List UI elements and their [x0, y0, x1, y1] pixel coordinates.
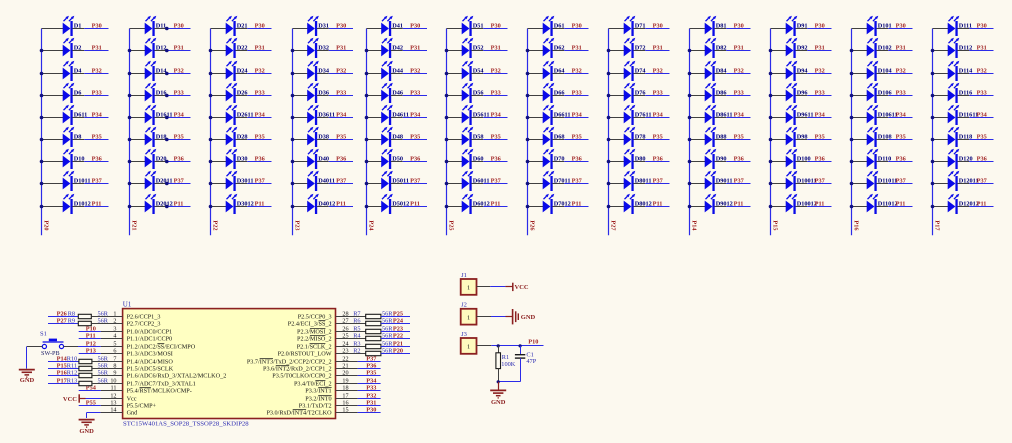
wire: net stub P33 [84, 95, 108, 97]
svg-text:P34: P34 [174, 112, 185, 119]
LED D7011 [543, 171, 555, 191]
wire: net stub P36 [888, 161, 912, 163]
svg-text:P17: P17 [57, 377, 67, 384]
svg-text:P34: P34 [92, 112, 103, 119]
wire: LED D11 cathode stub [154, 28, 166, 30]
svg-text:P20: P20 [42, 220, 49, 230]
junction on bus at row 8 [209, 182, 213, 186]
wire: net stub P11 [888, 206, 912, 208]
wire down to GND [26, 347, 28, 369]
svg-text:D24: D24 [237, 68, 249, 75]
LED D116 [948, 83, 960, 103]
LED D4011 [307, 171, 319, 191]
wire: net stub P37 [888, 183, 912, 185]
wire: LED D94 cathode stub [795, 73, 807, 75]
resistor R7 56R [366, 314, 381, 318]
wire: bus to LED D5011 anode [367, 183, 382, 185]
LED D40 [307, 149, 319, 169]
wire: LED D48 cathode stub [391, 139, 403, 141]
svg-text:P33: P33 [734, 90, 744, 97]
svg-text:D66: D66 [554, 90, 565, 97]
svg-text:P21: P21 [130, 220, 137, 230]
svg-text:D4012: D4012 [318, 201, 335, 208]
junction on bus at row 9 [526, 205, 530, 209]
svg-text:D8011: D8011 [635, 178, 652, 185]
svg-text:P37: P37 [92, 178, 102, 185]
svg-text:25: 25 [342, 333, 348, 340]
wire: bus to LED D101 anode [852, 28, 868, 30]
wire: LED D32 cathode stub [317, 50, 329, 52]
svg-text:P2.1/SCLK_2: P2.1/SCLK_2 [297, 344, 332, 351]
wire: net stub P30 [247, 28, 271, 30]
junction on bus at row 9 [850, 205, 854, 209]
svg-text:22: 22 [342, 356, 348, 363]
LED D10 [63, 149, 75, 169]
svg-text:P11: P11 [815, 201, 825, 208]
svg-text:D20: D20 [156, 156, 167, 163]
wire: bus to LED D32 anode [293, 50, 308, 52]
LED D51 [462, 16, 474, 36]
LED D8 [63, 127, 75, 147]
wire: bus to LED D56 anode [447, 95, 463, 97]
junction on bus at row 3 [931, 72, 935, 76]
svg-text:15: 15 [342, 407, 348, 414]
wire: net stub P36 [166, 161, 190, 163]
svg-text:P37: P37 [815, 178, 825, 185]
wire: LED D80 cathode stub [633, 161, 645, 163]
svg-text:23: 23 [342, 348, 348, 355]
LED D9611 [786, 105, 798, 125]
svg-text:P31: P31 [366, 399, 376, 406]
wire: LED D4011 cathode stub [317, 183, 329, 185]
svg-text:P31: P31 [815, 45, 825, 52]
svg-text:R3: R3 [353, 340, 360, 347]
svg-text:D11611: D11611 [959, 112, 979, 119]
svg-text:D611: D611 [74, 112, 88, 119]
wire pin 20 [336, 375, 358, 377]
LED D11012 [867, 194, 879, 214]
wire: bus to LED D5012 anode [367, 206, 382, 208]
LED column 8 bus wire net P27 [608, 29, 610, 236]
wire: LED D10012 cathode stub [795, 206, 807, 208]
wire: LED D114 cathode stub [957, 73, 969, 75]
wire: net stub P34 [564, 117, 588, 119]
wire: bus to LED D2012 anode [130, 206, 146, 208]
wire net P31 [358, 405, 381, 407]
connector J1 [461, 279, 477, 295]
LED D86 [705, 83, 717, 103]
svg-text:P32: P32 [653, 68, 663, 75]
svg-text:P35: P35 [896, 134, 906, 141]
wire: bus to LED D3611 anode [293, 117, 308, 119]
junction on bus at row 2 [607, 49, 611, 53]
wire: LED D28 cathode stub [235, 139, 247, 141]
svg-text:56R: 56R [382, 310, 393, 317]
svg-text:VCC: VCC [63, 396, 77, 403]
svg-text:P33: P33 [896, 90, 906, 97]
svg-text:P22: P22 [393, 332, 403, 339]
wire: bus to LED D611 anode [42, 117, 64, 119]
svg-text:P35: P35 [815, 134, 825, 141]
wire net P23 [381, 331, 410, 333]
wire: net stub P30 [807, 28, 831, 30]
LED D11611 [948, 105, 960, 125]
LED D74 [624, 61, 636, 81]
wire R10 to pin 7 [92, 361, 123, 363]
svg-text:P33: P33 [653, 90, 663, 97]
svg-text:R12: R12 [67, 369, 78, 376]
wire pin 15 [336, 412, 358, 414]
wire net P54 [79, 390, 101, 392]
svg-text:R1: R1 [502, 354, 509, 361]
LED column 3 bus wire net P22 [210, 29, 212, 236]
svg-text:D102: D102 [878, 45, 892, 52]
junction on bus at row 9 [931, 205, 935, 209]
LED D5012 [381, 194, 393, 214]
wire: LED D2 cathode stub [72, 50, 84, 52]
wire net P25 [381, 316, 410, 318]
wire: bus to LED D4611 anode [367, 117, 382, 119]
LED column 1 bus wire net P20 [41, 29, 43, 236]
wire R12 to pin 9 [92, 375, 123, 377]
wire: net stub P36 [726, 161, 750, 163]
LED D4611 [381, 105, 393, 125]
resistor R12 56R [79, 373, 92, 377]
svg-text:P2.5/CCP0_3: P2.5/CCP0_3 [298, 314, 332, 321]
svg-text:J3: J3 [461, 331, 467, 338]
svg-text:P11: P11 [336, 201, 346, 208]
wire pin 19 [336, 383, 358, 385]
wire: bus to LED D8011 anode [609, 183, 625, 185]
wire: net stub P37 [726, 183, 750, 185]
wire: net stub P36 [329, 161, 353, 163]
wire: bus to LED D66 anode [528, 95, 544, 97]
LED D2 [63, 38, 75, 58]
svg-text:P11: P11 [174, 201, 184, 208]
junction on bus at row 7 [445, 160, 449, 164]
svg-text:P33: P33 [366, 384, 376, 391]
wire to pin 3 [101, 331, 123, 333]
svg-text:D8012: D8012 [635, 201, 652, 208]
svg-text:P31: P31 [653, 45, 663, 52]
wire: net stub P36 [645, 161, 669, 163]
LED D108 [867, 127, 879, 147]
svg-text:P33: P33 [410, 90, 420, 97]
svg-text:D64: D64 [554, 68, 566, 75]
svg-text:P32: P32 [572, 68, 582, 75]
wire: bus to LED D102 anode [852, 50, 868, 52]
wire: net stub P11 [807, 206, 831, 208]
svg-text:Vcc: Vcc [127, 396, 137, 403]
svg-text:P21: P21 [393, 340, 403, 347]
wire: bus to LED D52 anode [447, 50, 463, 52]
wire to ground [498, 382, 500, 390]
junction node R1/C1 bottom [497, 380, 500, 383]
wire J1 to VCC [477, 286, 491, 288]
svg-text:21: 21 [342, 363, 348, 370]
resistor R6 56R [366, 321, 381, 325]
svg-text:D78: D78 [635, 134, 646, 141]
LED D6012 [462, 194, 474, 214]
wire: bus to LED D22 anode [211, 50, 227, 52]
LED D5011 [381, 171, 393, 191]
wire: LED D7012 cathode stub [552, 206, 564, 208]
wire: bus to LED D68 anode [528, 139, 544, 141]
junction at D16 cathode net [165, 94, 169, 98]
svg-text:D94: D94 [797, 68, 809, 75]
wire R11 to pin 8 [92, 368, 123, 370]
LED D2012 [145, 194, 157, 214]
junction on bus at row 6 [526, 138, 530, 142]
svg-text:P3.0/RxD/INT4/T2CLKO: P3.0/RxD/INT4/T2CLKO [266, 410, 332, 417]
svg-text:P24: P24 [367, 220, 374, 231]
svg-text:P2.0/RSTOUT_LOW: P2.0/RSTOUT_LOW [278, 351, 332, 358]
wire: net stub P37 [645, 183, 669, 185]
svg-text:GND: GND [521, 314, 536, 321]
wire: LED D4 cathode stub [72, 73, 84, 75]
svg-text:P36: P36 [815, 156, 825, 163]
junction on bus at row 7 [40, 160, 44, 164]
wire: bus to LED D82 anode [690, 50, 706, 52]
junction on bus at row 8 [607, 182, 611, 186]
wire: net stub P35 [564, 139, 588, 141]
junction on bus at row 6 [209, 138, 213, 142]
junction on bus at row 9 [209, 205, 213, 209]
svg-text:D12: D12 [156, 45, 167, 52]
svg-text:D9611: D9611 [797, 112, 814, 119]
LED D62 [543, 38, 555, 58]
wire: LED D81 cathode stub [714, 28, 726, 30]
svg-text:STC15W401AS_SOP28_TSSOP28_SKDI: STC15W401AS_SOP28_TSSOP28_SKDIP28 [123, 420, 249, 427]
wire: net stub P36 [483, 161, 507, 163]
LED D44 [381, 61, 393, 81]
LED D18 [145, 127, 157, 147]
svg-text:D84: D84 [716, 68, 728, 75]
wire: net stub P31 [84, 50, 108, 52]
LED column 7 bus wire net P26 [527, 29, 529, 236]
connector J3 [461, 338, 477, 354]
svg-text:R6: R6 [353, 317, 360, 324]
wire: LED D8011 cathode stub [633, 183, 645, 185]
power VCC (pin 12) [78, 394, 80, 402]
wire S1 to GND corner [27, 346, 43, 348]
svg-text:D21: D21 [237, 23, 248, 30]
resistor R2 56R [366, 351, 381, 355]
wire pin 21 [336, 368, 358, 370]
svg-text:R11: R11 [67, 362, 77, 369]
svg-text:D108: D108 [878, 134, 892, 141]
junction node R1 top [497, 344, 500, 347]
wire: LED D12012 cathode stub [957, 206, 969, 208]
junction at D11 cathode net [165, 27, 169, 31]
wire: bus to LED D10611 anode [852, 117, 868, 119]
svg-text:P24: P24 [393, 317, 404, 324]
svg-text:P11: P11 [572, 201, 582, 208]
junction on bus at row 6 [40, 138, 44, 142]
wire: net stub P35 [166, 139, 190, 141]
svg-text:P27: P27 [57, 317, 67, 324]
junction on bus at row 3 [526, 72, 530, 76]
wire: bus to LED D54 anode [447, 73, 463, 75]
svg-text:P36: P36 [572, 156, 582, 163]
wire net P20 [381, 353, 410, 355]
junction on bus at row 5 [209, 116, 213, 120]
resistor R4 56R [366, 336, 381, 340]
wire: LED D9012 cathode stub [714, 206, 726, 208]
svg-text:D74: D74 [635, 68, 647, 75]
svg-text:13: 13 [110, 400, 116, 407]
wire pin 27 to R6 [336, 323, 366, 325]
svg-text:D26: D26 [237, 90, 248, 97]
resistor R11 56R [79, 366, 92, 370]
wire: net stub P30 [645, 28, 669, 30]
svg-text:P23: P23 [393, 325, 403, 332]
svg-text:P5.4/RST/MCLKO/CMP-: P5.4/RST/MCLKO/CMP- [127, 388, 192, 395]
svg-text:D81: D81 [716, 23, 727, 30]
wire net P17 [48, 383, 79, 385]
wire: LED D120 cathode stub [957, 161, 969, 163]
junction on bus at row 2 [526, 49, 530, 53]
wire: LED D24 cathode stub [235, 73, 247, 75]
wire J3 to P10 [477, 345, 492, 347]
LED D2611 [226, 105, 238, 125]
LED D6 [63, 83, 75, 103]
wire: bus to LED D21 anode [211, 28, 227, 30]
svg-text:D88: D88 [716, 134, 727, 141]
wire net P37 [358, 361, 381, 363]
wire: net stub P35 [726, 139, 750, 141]
wire: LED D101 cathode stub [876, 28, 888, 30]
wire: LED D1012 cathode stub [72, 206, 84, 208]
wire: net stub P37 [403, 183, 427, 185]
wire: net stub P33 [564, 95, 588, 97]
wire: bus to LED D42 anode [367, 50, 382, 52]
LED D90 [705, 149, 717, 169]
svg-text:P26: P26 [57, 310, 67, 317]
LED D120 [948, 149, 960, 169]
LED D11 [145, 16, 157, 36]
wire: bus to LED D16 anode [130, 95, 146, 97]
wire R1 bottom [498, 369, 500, 382]
LED D24 [226, 61, 238, 81]
wire: bus to LED D6 anode [42, 95, 64, 97]
wire: LED D64 cathode stub [552, 73, 564, 75]
wire: LED D72 cathode stub [633, 50, 645, 52]
svg-text:P36: P36 [653, 156, 663, 163]
wire: LED D22 cathode stub [235, 50, 247, 52]
wire: bus to LED D50 anode [367, 161, 382, 163]
svg-text:P32: P32 [734, 68, 744, 75]
svg-text:P30: P30 [977, 23, 987, 30]
junction on bus at row 4 [688, 94, 692, 98]
svg-text:P33: P33 [977, 90, 987, 97]
LED D8611 [705, 105, 717, 125]
LED D96 [786, 83, 798, 103]
svg-text:P31: P31 [92, 45, 102, 52]
svg-text:1: 1 [467, 285, 470, 292]
svg-text:P2.3/MOSI_2: P2.3/MOSI_2 [297, 329, 332, 336]
svg-text:P30: P30 [336, 23, 346, 30]
svg-text:P30: P30 [815, 23, 825, 30]
junction on bus at row 6 [365, 138, 369, 142]
svg-text:Gnd: Gnd [127, 410, 139, 417]
wire: LED D2012 cathode stub [154, 206, 166, 208]
svg-text:P35: P35 [491, 134, 501, 141]
wire: net stub P30 [84, 28, 108, 30]
svg-text:2: 2 [113, 318, 116, 325]
wire: bus to LED D3012 anode [211, 206, 227, 208]
svg-text:D5611: D5611 [473, 112, 490, 119]
wire: bus to LED D118 anode [933, 139, 949, 141]
svg-text:VCC: VCC [515, 284, 529, 291]
resistor R3 56R [366, 344, 381, 348]
svg-text:P32: P32 [174, 68, 184, 75]
wire: net stub P32 [166, 73, 190, 75]
wire pin 17 [336, 398, 358, 400]
wire: net stub P34 [166, 117, 190, 119]
junction on bus at row 3 [688, 72, 692, 76]
wire: net stub P34 [726, 117, 750, 119]
wire pin 16 [336, 405, 358, 407]
wire: LED D11012 cathode stub [876, 206, 888, 208]
wire: net stub P11 [403, 206, 427, 208]
svg-text:19: 19 [342, 378, 348, 385]
wire: bus to LED D6611 anode [528, 117, 544, 119]
wire: LED D7011 cathode stub [552, 183, 564, 185]
wire: LED D92 cathode stub [795, 50, 807, 52]
wire: LED D1011 cathode stub [72, 183, 84, 185]
svg-text:D8611: D8611 [716, 112, 733, 119]
wire: bus to LED D12 anode [130, 50, 146, 52]
svg-text:D80: D80 [635, 156, 646, 163]
wire: net stub P35 [969, 139, 993, 141]
wire: net stub P31 [329, 50, 353, 52]
wire: LED D58 cathode stub [471, 139, 483, 141]
svg-text:D82: D82 [716, 45, 727, 52]
resistor R8 56R [78, 314, 91, 318]
wire: bus to LED D62 anode [528, 50, 544, 52]
svg-text:D114: D114 [959, 68, 973, 75]
ground symbol (S1) [19, 370, 35, 378]
wire net P22 [381, 338, 410, 340]
wire: LED D98 cathode stub [795, 139, 807, 141]
wire: bus to LED D4 anode [42, 73, 64, 75]
svg-text:P3.5/T0CLKO/CCP0_2: P3.5/T0CLKO/CCP0_2 [272, 373, 331, 380]
wire: net stub P11 [247, 206, 271, 208]
junction on bus at row 5 [850, 116, 854, 120]
wire: LED D4012 cathode stub [317, 206, 329, 208]
wire: net stub P35 [84, 139, 108, 141]
wire net P30 [358, 412, 381, 414]
svg-text:P36: P36 [491, 156, 501, 163]
wire: bus to LED D2 anode [42, 50, 64, 52]
svg-text:P23: P23 [293, 220, 300, 230]
junction on bus at row 4 [365, 94, 369, 98]
junction on bus at row 3 [40, 72, 44, 76]
LED D48 [381, 127, 393, 147]
wire: LED D7611 cathode stub [633, 117, 645, 119]
svg-text:P5.5/CMP+: P5.5/CMP+ [127, 403, 157, 410]
wire: bus to LED D88 anode [690, 139, 706, 141]
svg-text:P30: P30 [653, 23, 663, 30]
svg-text:P1.3/ADC3/MOSI: P1.3/ADC3/MOSI [127, 351, 173, 358]
wire: LED D51 cathode stub [471, 28, 483, 30]
wire net P24 [381, 323, 410, 325]
LED D98 [786, 127, 798, 147]
LED D104 [867, 61, 879, 81]
LED D31 [307, 16, 319, 36]
junction on bus at row 8 [850, 182, 854, 186]
